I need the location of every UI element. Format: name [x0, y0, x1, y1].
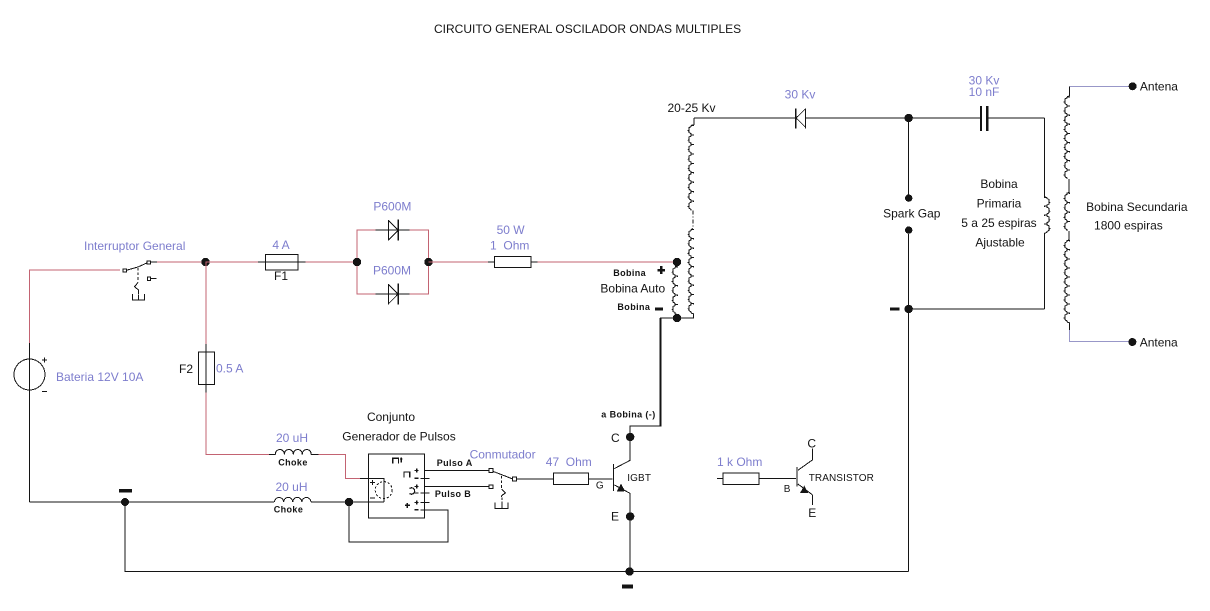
svg-text:20 uH: 20 uH [275, 480, 307, 494]
pin stubs [420, 478, 429, 502]
svg-text:Bobina: Bobina [617, 302, 650, 312]
node collector C [626, 433, 634, 441]
svg-text:0.5 A: 0.5 A [216, 362, 243, 376]
svg-text:Bateria 12V 10A: Bateria 12V 10A [56, 370, 143, 384]
svg-text:5 a 25 espiras: 5 a 25 espiras [961, 216, 1036, 230]
svg-text:C: C [807, 437, 816, 451]
svg-text:IGBT: IGBT [627, 473, 651, 484]
wire antenna top [1070, 86, 1131, 88]
inductor bobina primaria [1045, 196, 1047, 198]
wire node to F1 [206, 261, 259, 263]
wire bridge box red [357, 230, 429, 294]
svg-text:TRANSISTOR: TRANSISTOR [809, 473, 874, 484]
spark gap electrodes [905, 194, 912, 201]
svg-text:Bobina: Bobina [613, 268, 646, 278]
svg-text:Interruptor General: Interruptor General [84, 239, 185, 253]
svg-text:CIRCUITO GENERAL OSCILADOR OND: CIRCUITO GENERAL OSCILADOR ONDAS MULTIPL… [434, 22, 741, 36]
node battery negative [121, 498, 129, 506]
wire Pulso B [424, 486, 489, 488]
waveform glyph top [393, 458, 403, 464]
svg-text:20 uH: 20 uH [276, 431, 308, 445]
wire antenna bottom [1069, 323, 1071, 331]
svg-text:a Bobina (-): a Bobina (-) [601, 410, 655, 420]
wire battery bottom [30, 501, 274, 503]
inductor choke1 20uH [269, 454, 275, 456]
antenna top terminal [1129, 82, 1137, 90]
node bridge left [353, 258, 361, 266]
svg-text:Choke: Choke [278, 458, 308, 468]
battery B1 [14, 343, 47, 502]
node emitter E [626, 512, 634, 520]
minus mark primary [890, 307, 900, 310]
diode D1 P600M top [376, 220, 410, 241]
resistor R1 50W 1 Ohm [488, 256, 537, 267]
node choke2 junction [345, 498, 353, 506]
svg-text:Conmutador: Conmutador [470, 447, 536, 461]
wire bobina to IGBT branch [630, 318, 677, 426]
wire switch to node [157, 261, 206, 263]
diode D3 30Kv [796, 108, 806, 128]
inductor bobina auto tap [675, 262, 677, 267]
svg-text:Pulso B: Pulso B [435, 489, 471, 499]
capacitor C1 30Kv 10nF [981, 106, 987, 131]
wire primary bottom [909, 308, 1045, 310]
svg-text:1 Ohm: 1 Ohm [490, 239, 529, 253]
svg-text:Bobina Secundaria: Bobina Secundaria [1086, 200, 1188, 214]
node bobina plus [673, 258, 681, 266]
svg-text:50 W: 50 W [497, 223, 526, 237]
wire node to F2 red [205, 262, 207, 344]
box Conjunto Generador de Pulsos [368, 454, 424, 518]
wire Pulso A [424, 470, 489, 472]
svg-text:30 Kv: 30 Kv [785, 88, 816, 102]
plus mark [657, 266, 665, 274]
svg-text:10 nF: 10 nF [969, 85, 1000, 99]
svg-text:Bobina: Bobina [980, 177, 1018, 191]
svg-text:Pulso A: Pulso A [437, 458, 473, 468]
fuse F1 [258, 255, 305, 271]
svg-text:E: E [808, 506, 816, 520]
svg-text:Generador de Pulsos: Generador de Pulsos [342, 430, 455, 444]
svg-text:Choke: Choke [274, 505, 304, 515]
wire bridge to R1 [429, 261, 489, 263]
svg-text:F1: F1 [274, 269, 288, 283]
wire switch to R2 [516, 478, 553, 480]
pulse source symbol [360, 478, 392, 502]
fuse F2 [198, 344, 214, 392]
resistor R3 1k Ohm [723, 473, 759, 485]
svg-text:Conjunto: Conjunto [367, 410, 415, 424]
wire F1 to bridge [306, 261, 358, 263]
node emitter ground [625, 567, 633, 575]
wire battery top red [30, 270, 121, 343]
switch Interruptor General [123, 261, 157, 300]
node spark top rail [905, 114, 913, 122]
node bobina minus [673, 314, 681, 322]
minus mark bobina [655, 307, 663, 310]
svg-text:1 k Ohm: 1 k Ohm [717, 455, 762, 469]
pin plus/minus column [415, 469, 419, 510]
svg-text:Primaria: Primaria [977, 197, 1022, 211]
wire bottom pin loop [349, 502, 448, 542]
svg-text:Antena: Antena [1140, 335, 1178, 349]
inductor choke2 20uH [275, 497, 311, 502]
wire R3 to base [759, 478, 796, 480]
svg-text:Antena: Antena [1140, 80, 1178, 94]
node main junction [201, 258, 209, 266]
switch Conmutador [489, 469, 516, 509]
minus mark ground [622, 584, 633, 588]
svg-text:47 Ohm: 47 Ohm [546, 455, 592, 469]
transistor Q2 [797, 449, 813, 505]
wire primary vertical [1044, 118, 1046, 309]
pin symbols column [404, 472, 415, 508]
svg-text:E: E [611, 510, 619, 524]
wire choke1 to pulse box red [319, 455, 360, 479]
svg-text:4 A: 4 A [272, 238, 289, 252]
wire ground rail [125, 502, 909, 572]
node bridge right [424, 258, 432, 266]
antenna bottom terminal [1128, 338, 1136, 346]
wire R2 to gate [589, 478, 613, 480]
inductor bobina secundaria [1067, 95, 1070, 98]
wire spark gap lower [908, 234, 910, 572]
wire R3 stub [717, 478, 723, 480]
inductor bobina auto main [691, 118, 694, 125]
svg-text:P600M: P600M [373, 264, 411, 278]
wire top rail [694, 117, 1045, 119]
transistor Q1 IGBT [613, 318, 661, 572]
wire F2 to choke1 red [206, 392, 269, 454]
node primary bottom [905, 305, 913, 313]
svg-text:C: C [611, 431, 620, 445]
svg-text:Spark Gap: Spark Gap [883, 207, 941, 221]
wire R1 to bobina [537, 261, 677, 263]
svg-text:20-25 Kv: 20-25 Kv [667, 101, 715, 115]
wire spark gap upper [908, 118, 910, 195]
wire choke2 to pulse box [311, 501, 384, 503]
svg-text:Bobina Auto: Bobina Auto [600, 282, 665, 296]
svg-text:P600M: P600M [373, 200, 411, 214]
svg-text:1800 espiras: 1800 espiras [1094, 219, 1163, 233]
svg-text:F2: F2 [179, 362, 193, 376]
svg-text:Ajustable: Ajustable [975, 236, 1025, 250]
resistor R2 47 Ohm [554, 473, 589, 484]
svg-text:B: B [784, 484, 791, 495]
svg-text:G: G [596, 480, 604, 491]
diode D2 P600M bottom [376, 284, 410, 305]
